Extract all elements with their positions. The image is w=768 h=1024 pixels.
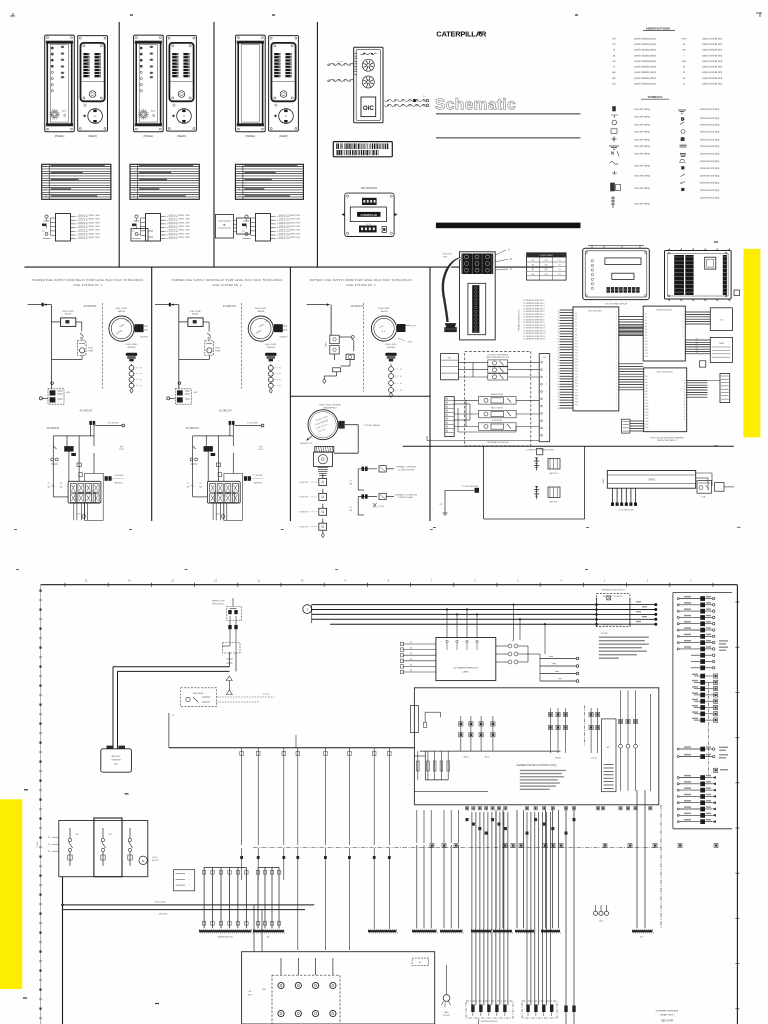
wire middle divider-2	[289, 267, 291, 521]
svg-text:fuse with rating: fuse with rating	[634, 152, 650, 155]
svg-text:fuse with rating: fuse with rating	[634, 203, 650, 206]
svg-text:output terminal strip: output terminal strip	[702, 37, 723, 40]
cable harness loom	[443, 258, 461, 322]
svg-text:WIRE NO TO PANEL TERM: WIRE NO TO PANEL TERM	[168, 218, 190, 221]
wire subband divider-1	[483, 446, 485, 519]
IC block main ECM U1	[573, 307, 619, 411]
wire supply feed 2	[155, 303, 188, 389]
svg-text:12: 12	[350, 507, 352, 509]
alarm annunciator panel NFPA3A	[236, 35, 266, 138]
svg-text:W2: W2	[545, 260, 548, 262]
switch column pair S-A	[459, 716, 473, 759]
node bus junction circle 1	[303, 605, 312, 614]
glow plug grid module	[602, 471, 696, 489]
svg-text:SEE NOTE 3 ON SHEET 2: SEE NOTE 3 ON SHEET 2	[603, 596, 623, 598]
svg-text:connector and plug: connector and plug	[700, 182, 720, 185]
svg-text:term: term	[682, 37, 687, 40]
svg-text:output terminal strip: output terminal strip	[702, 83, 723, 86]
fuel level sender SR3	[385, 344, 402, 397]
svg-text:st: st	[613, 66, 615, 69]
svg-text:T: T	[188, 885, 189, 887]
svg-text:(+) BATTERY CONNECTIONS: (+) BATTERY CONNECTIONS	[526, 449, 554, 452]
relay grid block 2	[207, 481, 240, 503]
label wiring note paragraph	[599, 633, 649, 659]
svg-text:( REAR VIEW ): ( REAR VIEW )	[660, 1013, 675, 1016]
pump aux pump col3	[341, 354, 355, 366]
svg-text:panel indicating lamp: panel indicating lamp	[634, 77, 656, 80]
node frame tick marks	[65, 583, 739, 1009]
title Schematic	[435, 97, 516, 114]
svg-text:K8: K8	[645, 335, 647, 337]
wire center drop continuation	[298, 880, 398, 950]
svg-text:EMERG STOP: EMERG STOP	[212, 601, 225, 603]
svg-text:40 CIRCUIT: 40 CIRCUIT	[46, 427, 60, 430]
svg-text:K2: K2	[645, 317, 647, 319]
relay row R5	[478, 406, 516, 417]
svg-text:(REAR): (REAR)	[88, 135, 97, 138]
svg-text:sw: sw	[613, 60, 616, 63]
svg-text:FL: FL	[140, 385, 142, 387]
svg-text:P26: P26	[575, 389, 578, 391]
node subband ticks	[14, 527, 741, 569]
svg-text:GENERATOR SET CONTROL (GSC): GENERATOR SET CONTROL (GSC)	[517, 764, 557, 767]
node junction circle 1	[51, 382, 54, 385]
svg-text:NOTE: NOTE	[258, 449, 264, 451]
svg-text:P14: P14	[575, 353, 578, 355]
svg-text:panel indicating lamp: panel indicating lamp	[634, 71, 656, 74]
svg-text:BATT: BATT	[325, 341, 328, 347]
svg-text:WIRING PER TABLE 2: WIRING PER TABLE 2	[657, 439, 676, 442]
svg-text:WIRE NO TO PANEL TERM: WIRE NO TO PANEL TERM	[279, 214, 301, 217]
junction box JB2	[710, 337, 732, 362]
svg-text:connector and plug: connector and plug	[700, 124, 720, 127]
svg-text:FUEL LEVEL: FUEL LEVEL	[126, 344, 139, 346]
IC block relay module U2	[643, 306, 685, 361]
svg-text:A6: A6	[410, 669, 412, 672]
svg-text:T3: T3	[558, 265, 560, 267]
svg-text:TO GLOW PLUGS: TO GLOW PLUGS	[618, 510, 634, 512]
connector column engine harness	[673, 593, 732, 829]
wire dash-dot harness boundary	[253, 847, 661, 849]
svg-text:SENDER: SENDER	[387, 347, 396, 349]
svg-text:B: B	[684, 410, 685, 412]
svg-text:FL: FL	[400, 390, 402, 392]
junction block dashed AC distribution	[597, 589, 630, 627]
svg-text:F2: F2	[48, 844, 50, 846]
black separator bar	[436, 223, 581, 229]
node device pin ticks	[354, 54, 357, 75]
svg-text:WIRE NO TO PANEL TERM: WIRE NO TO PANEL TERM	[168, 221, 190, 224]
svg-text:connector and plug: connector and plug	[700, 145, 720, 148]
svg-text:ALARM RELAY: ALARM RELAY	[491, 393, 504, 396]
svg-text:RELAY: RELAY	[65, 313, 72, 316]
symbol glyphs column	[609, 107, 621, 209]
svg-text:WIRE NO TO PANEL TERM: WIRE NO TO PANEL TERM	[168, 232, 190, 235]
svg-text:BATTERY FUEL SUPPLY FROM PUMP: BATTERY FUEL SUPPLY FROM PUMP LEVEL BULK…	[310, 279, 412, 282]
svg-text:WIRE NO TO PANEL TERM: WIRE NO TO PANEL TERM	[279, 236, 301, 239]
svg-text:P11: P11	[575, 344, 578, 346]
wire to ground terminal 2	[167, 397, 176, 400]
svg-text:B: B	[684, 404, 685, 406]
svg-text:ENGINE SENSORS: ENGINE SENSORS	[481, 1021, 498, 1023]
svg-text:PUMPED FUEL SUPPLY FROM RELAY: PUMPED FUEL SUPPLY FROM RELAY PUMP LEVEL…	[32, 279, 143, 282]
svg-text:T: T	[546, 377, 547, 379]
svg-text:FUEL: FUEL	[88, 348, 93, 350]
svg-text:FL: FL	[279, 380, 281, 382]
svg-text:11: 11	[238, 189, 240, 191]
svg-text:SWITCH (NC): SWITCH (NC)	[212, 603, 224, 605]
svg-text:( APB ): ( APB )	[463, 670, 470, 673]
svg-text:K14: K14	[645, 353, 648, 355]
connector battery feed 2	[229, 421, 264, 427]
svg-text:B: B	[684, 416, 685, 418]
svg-text:connector and plug: connector and plug	[700, 152, 720, 155]
wire dash vertical boundary	[660, 805, 662, 929]
relay fuel pump relay K21	[188, 311, 203, 327]
node small square SQ3	[537, 449, 543, 455]
svg-text:16: 16	[172, 715, 174, 717]
label sender magnified	[319, 405, 341, 410]
svg-text:connector and plug: connector and plug	[700, 189, 720, 192]
svg-text:14: 14	[60, 483, 62, 485]
svg-text:P8: P8	[575, 334, 577, 336]
switch pressure switch 1	[51, 446, 58, 464]
node corner-marks	[10, 13, 762, 17]
svg-text:TO 24V BUS: TO 24V BUS	[108, 422, 120, 424]
svg-text:4: 4	[45, 172, 46, 174]
svg-text:P31: P31	[575, 405, 578, 407]
connector stack lower-left of U3	[622, 419, 644, 433]
wire GSC inner right vertical	[649, 694, 651, 791]
svg-text:CATERPILLAR: CATERPILLAR	[360, 214, 377, 217]
svg-text:panel indicating lamp: panel indicating lamp	[634, 49, 656, 52]
svg-text:(REAR): (REAR)	[279, 135, 288, 138]
svg-text:P2: P2	[575, 316, 577, 318]
node tick left-margin mid	[125, 793, 129, 795]
table connector chart	[527, 253, 567, 280]
label note under aux module	[650, 436, 684, 442]
svg-text:A1: A1	[410, 641, 412, 644]
svg-text:FUEL LEVEL SENDER: FUEL LEVEL SENDER	[319, 405, 341, 407]
svg-text:pnl: pnl	[612, 37, 616, 40]
svg-text:fuse with rating: fuse with rating	[634, 164, 650, 167]
alarm panel annunciator unit 1B	[78, 36, 108, 138]
wire APB left pin stubs	[400, 641, 436, 674]
svg-text:A1: A1	[532, 268, 534, 271]
wire device top squiggle	[361, 53, 377, 55]
svg-text:METER: METER	[152, 860, 159, 862]
connector rows upper group	[677, 596, 728, 651]
svg-text:(AUX): (AUX)	[464, 756, 469, 759]
ground cluster triple	[593, 905, 608, 923]
wire bundle aux right	[687, 380, 708, 397]
wire interface rows upper	[458, 362, 539, 377]
switch group normally closed	[349, 493, 417, 515]
switch group normally open	[349, 466, 416, 490]
svg-text:B: B	[684, 413, 685, 415]
svg-text:RLY: RLY	[696, 341, 699, 343]
relay fuel pump relay K11	[61, 311, 76, 327]
svg-text:FUEL LEVEL: FUEL LEVEL	[378, 308, 391, 310]
svg-text:K13: K13	[645, 350, 648, 352]
wire pair alternator R	[632, 790, 653, 938]
svg-text:TC SENSOR WIRE NO 13: TC SENSOR WIRE NO 13	[523, 333, 545, 335]
wire group mid sensors	[471, 929, 560, 1005]
wire lower network rails 1	[53, 425, 94, 497]
svg-text:TO: TO	[423, 96, 426, 98]
svg-text:FL: FL	[400, 376, 402, 378]
node tick right top	[714, 241, 718, 243]
svg-text:TC SENSOR WIRE NO 6: TC SENSOR WIRE NO 6	[523, 314, 544, 316]
svg-text:TC SENSOR WIRE NO 9: TC SENSOR WIRE NO 9	[523, 322, 544, 324]
svg-text:fuse with rating: fuse with rating	[634, 124, 650, 127]
svg-text:K6: K6	[645, 329, 647, 331]
svg-text:TC SENSOR WIRE NO 10: TC SENSOR WIRE NO 10	[523, 325, 545, 327]
svg-text:TC SENSOR WIRE NO 14: TC SENSOR WIRE NO 14	[523, 336, 545, 338]
switch start switch col3	[339, 336, 354, 351]
node 4x-circuit labels 1	[46, 409, 93, 430]
svg-text:connector and plug: connector and plug	[700, 167, 720, 170]
connector socket strip lower	[468, 283, 486, 334]
wire harness left upper	[327, 61, 353, 66]
svg-text:FUEL PUMP: FUEL PUMP	[62, 311, 74, 313]
wire dash-dot column partition	[708, 683, 710, 775]
relay row R1	[488, 360, 508, 366]
svg-text:TO FUEL GAUGE: TO FUEL GAUGE	[364, 424, 381, 427]
svg-text:1: 1	[134, 165, 135, 167]
svg-text:P17: P17	[575, 362, 578, 364]
svg-text:SEC-0744: SEC-0744	[661, 1019, 674, 1023]
wire harness left lower	[327, 79, 353, 81]
svg-text:K1: K1	[645, 314, 647, 316]
svg-text:TC SENSOR WIRE NO 12: TC SENSOR WIRE NO 12	[523, 330, 545, 332]
relay row R2	[488, 367, 508, 373]
svg-text:SENDER: SENDER	[127, 347, 136, 349]
interface module dashed enclosure	[465, 352, 531, 446]
connector group B dash-dot	[522, 1001, 557, 1018]
svg-text:WIRE NO TO PANEL TERM: WIRE NO TO PANEL TERM	[78, 225, 100, 228]
svg-text:fuse with rating: fuse with rating	[634, 138, 650, 141]
svg-text:11: 11	[133, 189, 135, 191]
svg-text:CATERPILLAR: CATERPILLAR	[436, 30, 487, 39]
svg-text:B: B	[684, 383, 685, 385]
connector pin block upper	[462, 254, 494, 275]
svg-text:P6: P6	[575, 328, 577, 330]
svg-text:A1: A1	[532, 273, 534, 276]
wire middle divider-3	[429, 267, 431, 521]
wire fuse risers	[513, 604, 546, 654]
svg-text:BATT NO 2: BATT NO 2	[549, 501, 558, 504]
terminal strip outline 2	[224, 473, 243, 520]
resistor tank unit col3	[323, 368, 341, 384]
svg-text:output terminal strip: output terminal strip	[702, 54, 723, 57]
svg-text:P15: P15	[575, 356, 578, 358]
svg-text:B: B	[684, 386, 685, 388]
svg-text:F3: F3	[48, 851, 50, 853]
svg-text:FUEL LEVEL: FUEL LEVEL	[385, 344, 398, 346]
svg-text:FAULT RELAY: FAULT RELAY	[491, 406, 503, 409]
svg-text:FL: FL	[140, 368, 142, 370]
svg-text:STARTER MOTOR: STARTER MOTOR	[217, 935, 233, 938]
pump fuel pump motor M1	[52, 341, 94, 360]
svg-text:connector and plug: connector and plug	[700, 108, 720, 111]
svg-text:P21: P21	[575, 374, 578, 376]
svg-text:P28: P28	[575, 395, 578, 397]
svg-text:B: B	[684, 395, 685, 397]
pump fuel pump motor M2	[179, 341, 221, 360]
svg-text:14: 14	[133, 196, 135, 198]
svg-text:OlC: OlC	[363, 105, 375, 112]
capacitor filter 1	[71, 453, 82, 477]
svg-text:WIRE NO TO PANEL TERM: WIRE NO TO PANEL TERM	[279, 232, 301, 235]
svg-text:CUSTOM MODULE: CUSTOM MODULE	[656, 372, 674, 374]
node callout arrows A	[495, 249, 512, 272]
wire relay to pump 2	[203, 322, 211, 339]
alarm panel annunciator unit 3B	[269, 36, 299, 138]
svg-text:4: 4	[239, 172, 240, 174]
svg-text:CB2: CB2	[108, 834, 112, 836]
svg-text:fuse with rating: fuse with rating	[634, 115, 650, 118]
svg-text:MAIN: MAIN	[602, 478, 605, 483]
wire middle divider-1	[151, 267, 153, 521]
svg-text:12: 12	[48, 483, 50, 485]
svg-text:P13: P13	[575, 350, 578, 352]
svg-text:PM MODULE: PM MODULE	[361, 186, 377, 190]
svg-text:MODEL 2 OPTION ONLY: MODEL 2 OPTION ONLY	[603, 624, 623, 626]
svg-text:SENDER TOP: SENDER TOP	[300, 443, 313, 445]
wire APB risers	[446, 609, 478, 638]
node tick left-margin lower	[23, 997, 27, 999]
meter hour meter	[139, 856, 159, 864]
wire bundle ECM right lower	[619, 364, 643, 390]
svg-text:24 CIRCUIT: 24 CIRCUIT	[83, 305, 97, 308]
svg-text:K4: K4	[645, 323, 647, 325]
svg-text:RELAY: RELAY	[192, 313, 199, 316]
nameplate logo OIC	[361, 97, 376, 117]
svg-text:output terminal strip: output terminal strip	[702, 77, 723, 80]
engine annunciator assembly rear view	[354, 47, 383, 123]
wire AC bus lines	[312, 605, 597, 625]
alarm annunciator panel NFPA1A	[45, 35, 75, 138]
connector P3	[233, 218, 251, 234]
svg-text:fuse with rating: fuse with rating	[634, 131, 650, 134]
svg-text:12: 12	[187, 483, 189, 485]
label drawing number	[656, 1010, 679, 1023]
terminal strip outline 1	[85, 473, 104, 520]
svg-text:x x x x: x x x x	[337, 61, 343, 63]
svg-text:14: 14	[199, 483, 201, 485]
wire bundle ECM right upper	[619, 317, 643, 336]
svg-text:FUEL: FUEL	[215, 348, 220, 350]
svg-text:WIRE NO TO PANEL TERM: WIRE NO TO PANEL TERM	[78, 221, 100, 224]
wire grid outputs 2	[213, 503, 227, 520]
svg-text:11: 11	[45, 189, 47, 191]
svg-text:P3: P3	[575, 319, 577, 321]
svg-text:T: T	[546, 362, 547, 364]
battery charger unit	[101, 746, 132, 773]
fuse group APB right	[496, 641, 540, 664]
svg-text:P18: P18	[575, 365, 578, 367]
svg-text:BATTERY: BATTERY	[111, 755, 121, 758]
ECM connector board U10	[665, 249, 732, 302]
wire supply feed 1	[28, 303, 61, 389]
svg-text:FUEL PUMP: FUEL PUMP	[190, 311, 202, 313]
svg-text:F1: F1	[48, 837, 50, 839]
svg-text:MAG: MAG	[444, 1011, 449, 1014]
svg-text:GND: GND	[193, 392, 198, 394]
wire group left sensors	[412, 850, 463, 933]
svg-text:TB: TB	[223, 225, 226, 227]
border frame main schematic	[41, 585, 738, 1024]
terminal table TS1	[441, 354, 459, 380]
svg-text:WIRE NO TO PANEL TERM: WIRE NO TO PANEL TERM	[78, 218, 100, 221]
svg-text:RLY: RLY	[696, 352, 699, 354]
svg-text:T: T	[188, 879, 189, 881]
connector assembly PLUG ID	[443, 252, 495, 340]
wire generator leads	[254, 905, 333, 975]
svg-text:K11: K11	[645, 344, 648, 346]
wire grid module right	[696, 473, 712, 490]
svg-text:panel indicating lamp: panel indicating lamp	[634, 60, 656, 63]
gauge fuel level gauge G1	[109, 308, 149, 341]
svg-text:CONN CHART: CONN CHART	[539, 254, 554, 257]
svg-text:NORMALLY CLOSED SW: NORMALLY CLOSED SW	[395, 493, 417, 496]
connector battery feed 1	[89, 421, 124, 427]
svg-text:K15: K15	[645, 356, 648, 358]
connector bar A	[199, 929, 252, 938]
svg-text:HOUR: HOUR	[152, 857, 158, 859]
wire dashed separator col3	[363, 303, 365, 392]
panel circuit breaker box CB	[59, 818, 148, 877]
svg-text:GAUGE: GAUGE	[257, 310, 265, 313]
svg-text:fuse with rating: fuse with rating	[634, 108, 650, 111]
svg-text:WIRE NO TO PANEL TERM: WIRE NO TO PANEL TERM	[78, 214, 100, 217]
svg-text:GND BUS: GND BUS	[159, 914, 168, 916]
svg-text:P29: P29	[575, 398, 578, 400]
connector strip right CS1	[708, 374, 730, 403]
svg-text:connector and plug: connector and plug	[700, 197, 720, 200]
svg-text:T: T	[546, 406, 547, 408]
alarm annunciator panel NFPA2A	[134, 35, 164, 138]
fuel level sender SR1	[126, 344, 142, 393]
svg-text:FLOAT SW: FLOAT SW	[299, 496, 309, 499]
svg-text:T: T	[546, 413, 547, 415]
svg-text:TO ENGINE: TO ENGINE	[114, 475, 125, 477]
svg-text:20 CIRCUIT: 20 CIRCUIT	[350, 305, 364, 308]
connector rows lower group	[677, 775, 716, 824]
svg-text:(REAR): (REAR)	[177, 135, 186, 138]
relay grid block 1	[68, 481, 101, 503]
svg-text:P23: P23	[575, 380, 578, 382]
svg-text:FLOAT SW: FLOAT SW	[299, 481, 309, 484]
svg-text:WIRE NO TO PANEL TERM: WIRE NO TO PANEL TERM	[279, 221, 301, 224]
svg-text:connector and plug: connector and plug	[700, 117, 720, 120]
svg-text:FUEL SYSTEM NO. 1: FUEL SYSTEM NO. 1	[73, 284, 103, 287]
connector rows short group	[691, 653, 715, 670]
terminal grid block	[262, 975, 340, 1024]
wire divider-3	[316, 22, 318, 267]
svg-text:panel indicating lamp: panel indicating lamp	[634, 66, 656, 69]
wire to ground terminal 1	[39, 397, 48, 400]
svg-text:P25: P25	[575, 386, 578, 388]
svg-text:FLOAT SW: FLOAT SW	[299, 526, 309, 529]
svg-text:(PANEL): (PANEL)	[144, 135, 154, 138]
switch network engine start	[212, 598, 242, 653]
node small square SQ1	[700, 361, 706, 367]
node GSC edge pins	[465, 807, 652, 810]
svg-text:A3: A3	[410, 652, 412, 655]
svg-text:wt: wt	[683, 77, 686, 80]
